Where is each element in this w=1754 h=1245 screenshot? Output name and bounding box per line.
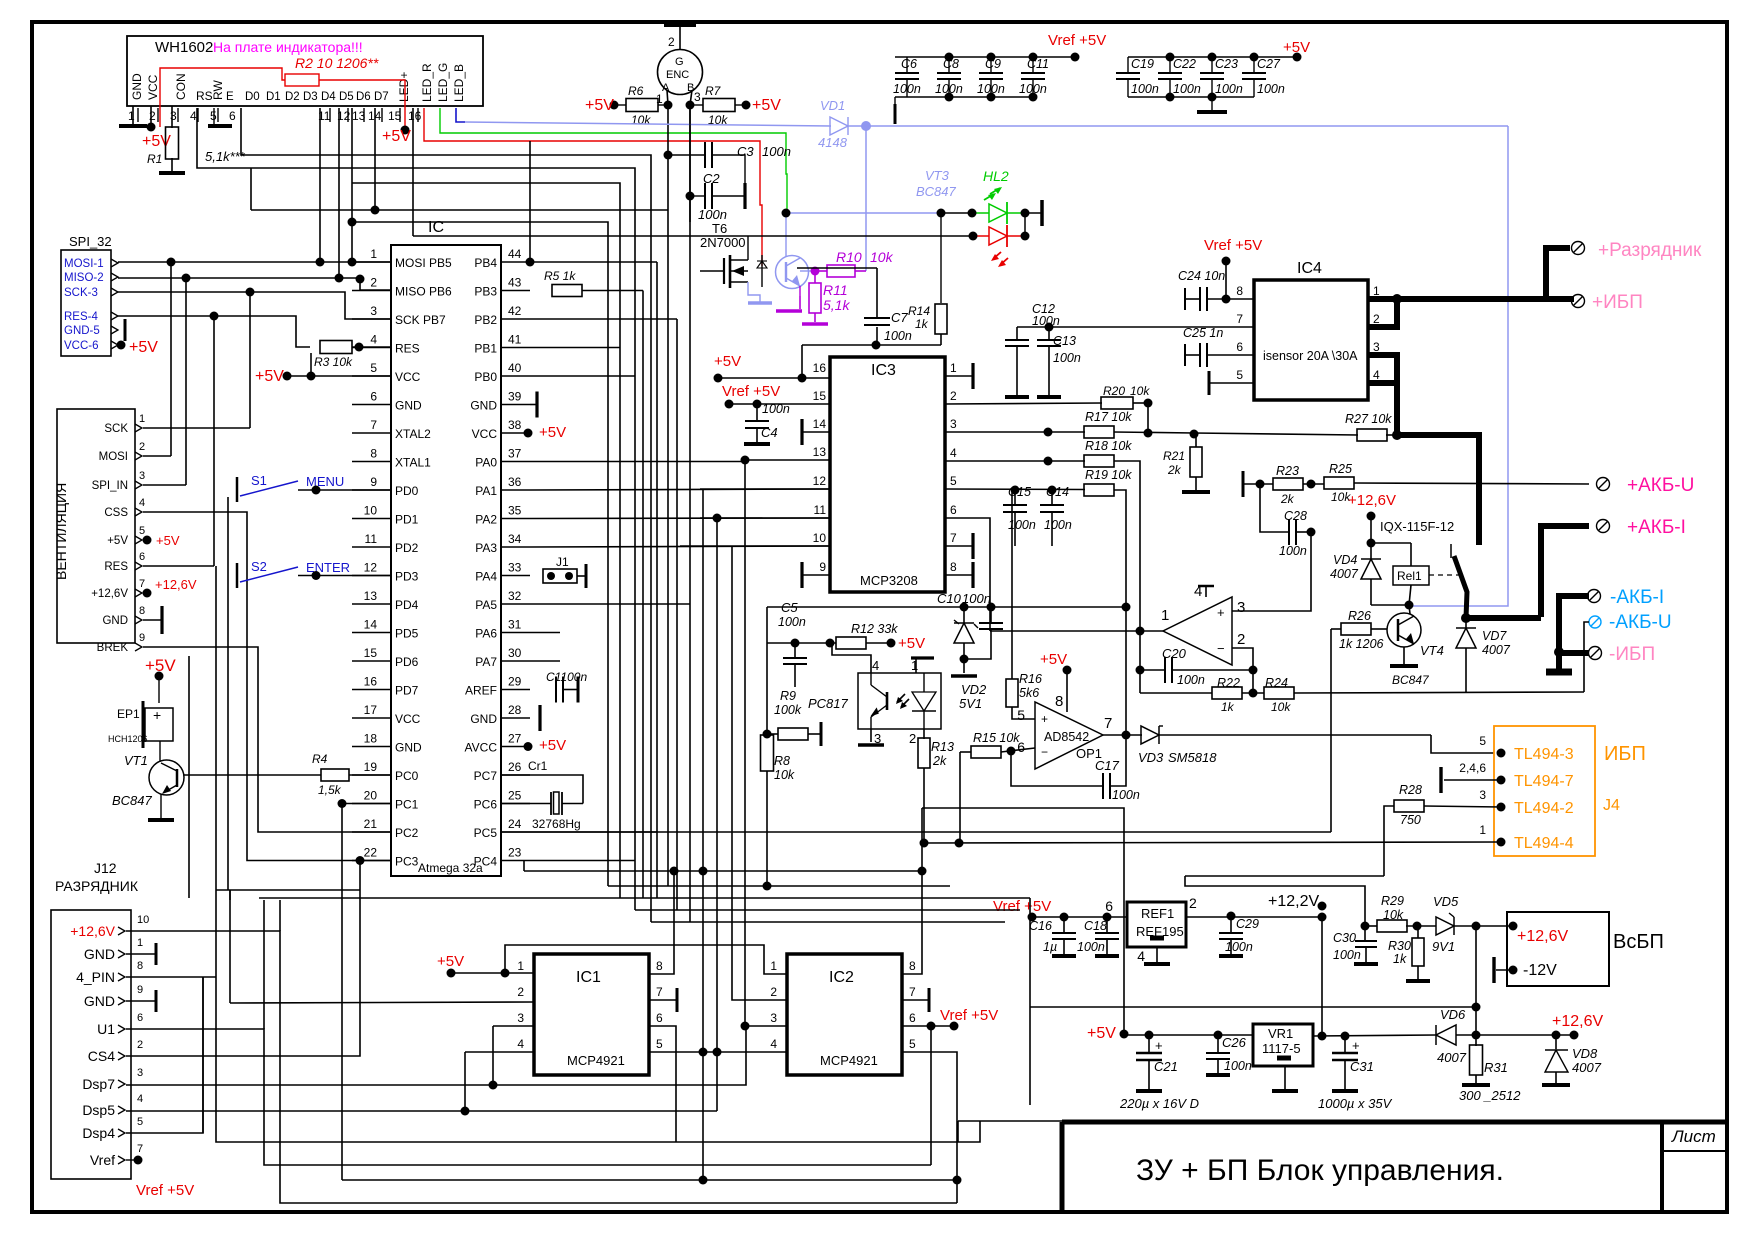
svg-text:GND-5: GND-5 [64,325,100,337]
svg-text:G: G [675,56,684,68]
svg-text:7: 7 [137,1143,143,1155]
wire RES to R3 and IC pin4 [118,316,310,347]
svg-text:SCK-3: SCK-3 [64,287,98,299]
svg-text:1k: 1k [915,317,929,331]
ground bank2 [1211,97,1213,110]
svg-text:100n: 100n [893,82,921,96]
relay coil Rel1 [1371,542,1411,544]
svg-text:+12,6V: +12,6V [70,923,115,939]
svg-text:D2: D2 [285,91,300,103]
svg-text:2: 2 [770,985,777,999]
svg-text:1117-5: 1117-5 [1262,1041,1301,1056]
diode VD8 4007 [1555,1035,1557,1049]
svg-text:C27: C27 [1257,57,1281,71]
svg-text:VD7: VD7 [1482,629,1507,643]
wire bundle verticals [642,291,644,899]
svg-text:PA3: PA3 [475,541,497,555]
svg-text:LED_R: LED_R [420,63,434,102]
wire fan CSS right [143,512,391,861]
wire LED anode black segment [941,212,972,214]
J4 pin TL494-4 [1497,838,1506,847]
svg-text:+5V: +5V [898,635,925,652]
svg-text:100n: 100n [1333,948,1361,962]
svg-text:-АКБ-U: -АКБ-U [1609,612,1672,633]
svg-text:R9: R9 [780,689,796,703]
svg-text:C10: C10 [937,591,962,606]
svg-text:+5V: +5V [1283,39,1310,56]
svg-text:8: 8 [370,447,377,461]
capacitor C3 100n [668,154,705,156]
wire LED_G green [440,108,787,212]
svg-text:GND: GND [84,946,115,962]
svg-text:BREK: BREK [97,642,129,654]
svg-text:VD5: VD5 [1433,894,1459,909]
svg-text:39: 39 [508,390,522,404]
svg-text:34: 34 [508,532,522,546]
svg-text:PB2: PB2 [474,313,497,327]
VCC-6 +5V [117,341,126,350]
PC817 pin3 ground [870,729,872,742]
svg-text:PD2: PD2 [395,541,419,555]
svg-text:R25: R25 [1329,462,1352,476]
IC1 pin5 wire to IC2 pin4 [649,1051,787,1053]
thick bus IC4 pins 1-2 to +UPS [1368,296,1574,302]
J12 GND ticks [126,953,156,955]
svg-text:VCC: VCC [146,74,160,100]
wire D6 pin13 down [351,108,353,262]
svg-text:CS4: CS4 [88,1048,115,1064]
svg-text:2: 2 [1189,895,1197,911]
svg-text:C29: C29 [1236,917,1259,931]
fan +12,6V [143,589,152,598]
svg-text:100n: 100n [1112,788,1140,802]
svg-text:PA7: PA7 [475,655,497,669]
wire violet down right side to VT4 [1411,126,1508,606]
svg-text:C6: C6 [901,57,917,71]
wire J12 +12,6V [126,931,957,1203]
pin 28 GND tick [538,705,541,731]
terminal -AKB-U [1589,616,1601,628]
svg-text:1k: 1k [1221,700,1235,714]
svg-text:100n: 100n [1044,518,1072,532]
svg-text:GND: GND [84,993,115,1009]
svg-text:+12,2V: +12,2V [1268,893,1319,910]
op-amp comparator (mirrored) [1163,597,1232,665]
IC1 pin7 tick [649,999,677,1001]
svg-text:1000µ x 35V: 1000µ x 35V [1318,1096,1393,1111]
svg-text:-ИБП: -ИБП [1609,644,1655,665]
wire J12 Dsp4 [126,977,203,1133]
svg-text:38: 38 [508,418,522,432]
pin 39 GND tick [530,404,536,406]
svg-text:2: 2 [909,731,916,746]
svg-text:CSS: CSS [104,507,128,519]
svg-text:D5: D5 [339,91,354,103]
svg-text:IC2: IC2 [829,969,854,986]
svg-text:MOSI-1: MOSI-1 [64,258,104,270]
svg-text:C7: C7 [891,310,908,325]
svg-text:35: 35 [508,504,522,518]
left long verticals [188,656,190,898]
svg-text:R15 10k: R15 10k [973,731,1020,745]
wire D6 branch right [352,222,608,886]
pin 40 wire [530,375,635,377]
svg-text:AREF: AREF [465,684,497,698]
IC1 pin4 wire [465,1051,534,1053]
svg-text:+12,6V: +12,6V [1517,928,1568,945]
svg-text:ЗУ + БП Блок управления.: ЗУ + БП Блок управления. [1136,1154,1504,1187]
pin 35 PA2 wire [530,517,830,520]
IC2 pin2 wire up [732,857,787,1000]
wire VD1 node down to R10 (violet) [865,126,867,271]
pin 27 AVCC +5V [524,742,533,751]
capacitor C23 100n [1211,57,1213,73]
svg-text:5k6: 5k6 [1019,686,1039,700]
svg-text:RES: RES [395,342,420,356]
svg-text:100k: 100k [774,703,802,717]
svg-text:+АКБ-U: +АКБ-U [1627,475,1694,496]
svg-text:PC6: PC6 [474,798,498,812]
svg-text:GND: GND [130,73,144,100]
svg-text:+5V: +5V [156,533,180,548]
svg-text:R13: R13 [931,740,954,754]
svg-text:R20: R20 [1103,384,1125,398]
IC3 pin4 wire to R18 [945,460,1085,462]
svg-text:VD4: VD4 [1333,553,1357,567]
svg-text:2N7000: 2N7000 [700,235,746,250]
svg-text:1: 1 [370,247,377,261]
svg-text:+5V: +5V [714,353,741,370]
svg-text:1,5k: 1,5k [318,783,342,797]
capacitor C2 100n [690,195,705,197]
pin20 PC1 wire [342,803,391,805]
wire fan SCK up [143,427,250,429]
wire +12,2V down to VR1 out [1321,917,1323,1036]
svg-text:+12,6V: +12,6V [1348,492,1396,509]
svg-text:100n: 100n [1077,940,1105,954]
tick left of R23 [1242,471,1245,497]
svg-text:+5V: +5V [1040,651,1067,668]
svg-text:12: 12 [364,561,378,575]
svg-text:Rel1: Rel1 [1397,569,1422,583]
wire J12 4_PIN [126,976,216,978]
svg-text:2: 2 [1237,631,1245,648]
relay switch blade thick [1450,544,1452,558]
svg-text:R2 10 1206**: R2 10 1206** [295,55,379,71]
svg-text:A: A [662,82,670,94]
wire D4 pin11 down to MOSI line [319,108,321,262]
svg-text:LED_G: LED_G [436,63,450,102]
IC4 pin7 wire to C12/C13 [1017,326,1254,328]
svg-text:1: 1 [128,109,135,123]
+5V to IC pin5 VCC [283,372,292,381]
svg-text:SPI_IN: SPI_IN [92,480,128,492]
svg-text:S1: S1 [251,473,267,488]
resistor R1 (5,1k contrast) [171,106,173,128]
svg-text:IQX-115F-12: IQX-115F-12 [1380,519,1454,534]
J4 pin TL494-7 [1497,776,1506,785]
svg-text:7: 7 [139,578,145,590]
svg-text:3: 3 [950,417,957,431]
svg-text:100n: 100n [1279,544,1307,558]
IC3 pin2 wire to R20 [945,403,1102,404]
wire +input to C28 node [1232,532,1311,611]
TL494-7 ground tick [1444,779,1501,781]
wire PC5 row to R26 [501,831,1331,833]
svg-text:PD0: PD0 [395,484,419,498]
svg-text:Лист: Лист [1671,1127,1716,1146]
svg-text:6: 6 [229,109,236,123]
svg-text:Vref +5V: Vref +5V [136,1182,194,1199]
svg-text:MOSI: MOSI [99,451,128,463]
wire LED cathodes join to gnd bar [1021,209,1030,218]
pin 36 PA1 wire [530,489,830,490]
wire J12 U1 [126,1029,931,1165]
svg-text:PD5: PD5 [395,627,419,641]
svg-text:8: 8 [656,959,663,973]
wire SCK to IC pin3 [118,292,391,319]
svg-text:100n: 100n [1257,82,1285,96]
svg-text:10k: 10k [1271,700,1291,714]
svg-text:8: 8 [137,960,143,972]
svg-text:23: 23 [508,846,522,860]
capacitors top bank C6 C8 C9 C11 [895,56,1075,58]
svg-text:PB0: PB0 [474,370,497,384]
svg-text:PA5: PA5 [475,598,497,612]
svg-text:AVCC: AVCC [465,741,498,755]
svg-text:750: 750 [1400,813,1421,827]
svg-text:+Разрядник: +Разрядник [1598,240,1702,261]
wire row 183 [352,183,620,898]
svg-text:19: 19 [364,760,378,774]
svg-text:7: 7 [656,985,663,999]
IC1 pin2 wire [230,1002,534,1003]
wire R28 net down to R29 [1185,876,1365,926]
svg-text:VCC-6: VCC-6 [64,340,99,352]
svg-text:1k: 1k [1393,952,1407,966]
svg-text:RW: RW [211,80,225,100]
svg-text:TL494-2: TL494-2 [1514,800,1574,817]
svg-text:PA6: PA6 [475,627,497,641]
svg-text:D6: D6 [356,91,371,103]
svg-text:Dsp7: Dsp7 [82,1076,115,1092]
pin 41 wire [530,347,620,349]
svg-text:1: 1 [770,959,777,973]
svg-text:D1: D1 [266,91,281,103]
wire rail 871 [524,870,922,872]
svg-text:C18: C18 [1084,919,1107,933]
pin 30 PA7 stub [530,660,560,662]
svg-text:PC3: PC3 [395,855,419,869]
svg-text:R30: R30 [1388,939,1411,953]
pin 38 VCC +5V [524,429,533,438]
svg-text:VD3: VD3 [1138,750,1164,765]
svg-text:Vref: Vref [90,1152,115,1168]
svg-text:BC847: BC847 [112,793,153,808]
svg-text:Dsp4: Dsp4 [82,1125,115,1141]
pin 44 junction [526,258,535,267]
svg-text:-12V: -12V [1523,962,1557,979]
svg-text:40: 40 [508,361,522,375]
IC1 pin8 wire up [649,871,674,974]
svg-text:C23: C23 [1215,57,1238,71]
gnd GND-5 [124,319,127,341]
svg-text:+: + [1155,1038,1163,1053]
svg-text:C19: C19 [1131,57,1154,71]
svg-text:VCC: VCC [395,370,421,384]
svg-text:GND: GND [470,712,497,726]
svg-text:Cr1: Cr1 [528,759,548,773]
fan +5V [143,536,152,545]
svg-text:C22: C22 [1173,57,1196,71]
svg-text:9: 9 [139,632,145,644]
svg-text:PB3: PB3 [474,285,497,299]
svg-text:R17 10k: R17 10k [1085,410,1132,424]
svg-text:7: 7 [909,985,916,999]
wire VT3 emitter to ground (magenta) [799,286,801,296]
svg-text:100n: 100n [778,615,806,629]
svg-text:TL494-7: TL494-7 [1514,773,1574,790]
svg-text:5: 5 [1479,734,1486,748]
wire LED node down to R14 [940,213,942,303]
capacitor C9 100n [990,57,992,73]
svg-text:4: 4 [950,446,957,460]
svg-text:100n: 100n [1053,351,1081,365]
svg-text:R4: R4 [312,752,328,766]
svg-text:C16: C16 [1029,919,1052,933]
svg-text:На плате индикатора!!!: На плате индикатора!!! [213,39,363,55]
svg-text:8: 8 [139,605,145,617]
svg-text:2: 2 [149,109,156,123]
zener VD2 5V1 [963,607,965,624]
thick ground [1556,653,1562,670]
wire fan RES [143,565,214,567]
terminal +UPS [1572,295,1585,308]
PC817 pin1 wire tick [911,656,934,659]
svg-text:7: 7 [1236,312,1243,326]
svg-text:D4: D4 [321,91,336,103]
svg-text:MOSI PB5: MOSI PB5 [395,256,452,270]
svg-text:+5V: +5V [129,339,158,356]
svg-text:isensor 20A \30A: isensor 20A \30A [1263,349,1358,363]
resistor R3 10k [320,341,352,354]
wire LED_B blue [456,108,465,122]
wire VD5 node down [1475,926,1477,1035]
REF1 pin2 wire [1186,916,1322,918]
wire LED_R red [424,108,762,266]
svg-text:PA2: PA2 [475,513,497,527]
svg-text:E: E [226,91,234,103]
IC2 pin7 tick [902,999,929,1001]
svg-text:4007: 4007 [1437,1050,1467,1065]
svg-text:VT1: VT1 [124,753,148,768]
IC3 pin14 tick [800,419,803,445]
J4 pin TL494-2 [1497,803,1506,812]
svg-text:GND: GND [395,399,422,413]
svg-text:ИБП: ИБП [1604,743,1646,765]
svg-text:3: 3 [170,109,177,123]
IC1 pin6 wire [649,1026,676,1142]
svg-text:VD1: VD1 [820,98,845,113]
svg-text:16: 16 [408,109,422,123]
IC3 pin13 wire [745,459,830,461]
svg-text:+5V: +5V [382,128,411,145]
ground above encoder [664,23,696,27]
svg-text:SCK PB7: SCK PB7 [395,313,446,327]
svg-text:5: 5 [656,1037,663,1051]
wire J12 CS4 [126,861,360,1057]
svg-text:20: 20 [364,789,378,803]
svg-text:42: 42 [508,304,522,318]
svg-text:HCH1206: HCH1206 [108,734,148,744]
wire D7 pin14 down [374,108,376,210]
connector J4 TL494 (orange box) [1494,726,1595,856]
capacitor C31 1000u [1344,1036,1346,1053]
wire rail 910 [635,909,1020,911]
svg-text:TL494-3: TL494-3 [1514,746,1574,763]
svg-text:2: 2 [950,389,957,403]
svg-text:30: 30 [508,646,522,660]
svg-text:C2: C2 [703,171,720,186]
wire fan BREK [143,647,391,832]
svg-text:1: 1 [950,361,957,375]
svg-text:BC847: BC847 [1392,673,1430,687]
svg-text:100n: 100n [1215,82,1243,96]
svg-text:100n: 100n [1177,673,1205,687]
svg-text:6: 6 [370,390,377,404]
svg-text:2: 2 [668,35,675,49]
svg-text:16: 16 [364,675,378,689]
thick bus to +spark-gap terminal [1546,248,1570,299]
wire op-amp output [990,630,1163,632]
svg-text:+5V: +5V [539,737,566,754]
svg-text:6: 6 [1105,898,1113,914]
svg-text:C5: C5 [781,600,798,615]
svg-text:2: 2 [1373,312,1380,326]
svg-text:2: 2 [370,276,377,290]
capacitor C11 100n [1032,57,1034,73]
svg-text:IC: IC [428,219,444,236]
PSU box VsBP [1507,912,1609,986]
svg-text:R1: R1 [147,152,162,166]
svg-text:PB4: PB4 [474,256,497,270]
svg-text:4_PIN: 4_PIN [76,969,115,985]
svg-text:9: 9 [137,984,143,996]
svg-text:32: 32 [508,589,522,603]
svg-text:PA0: PA0 [475,456,497,470]
svg-text:2,4,6: 2,4,6 [1459,761,1486,775]
svg-text:5: 5 [370,361,377,375]
pin1 GND stub to ground [132,106,134,125]
wire MOSI to IC pin1 [118,261,391,263]
svg-text:LED+: LED+ [397,72,411,102]
pin 32 PA5 wire [530,603,690,605]
svg-text:9V1: 9V1 [1432,939,1455,954]
svg-text:37: 37 [508,447,522,461]
wire R17 row to R27 [1194,433,1358,435]
svg-text:14: 14 [364,618,378,632]
svg-text:XTAL2: XTAL2 [395,427,431,441]
IC1 pin3 wire [493,1025,534,1027]
svg-text:4007: 4007 [1330,567,1359,581]
fan GND tick [143,619,162,621]
svg-text:1: 1 [137,937,143,949]
PC817 pin4 wire to R12 [832,644,871,673]
IC3 pin11 wire [700,517,830,519]
svg-text:PC7: PC7 [474,769,498,783]
svg-text:R16: R16 [1019,672,1042,686]
svg-text:R23: R23 [1276,464,1299,478]
